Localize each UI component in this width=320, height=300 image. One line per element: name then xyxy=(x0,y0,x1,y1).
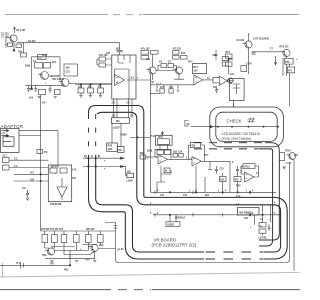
svg-text:C10: C10 xyxy=(66,72,71,74)
transistor TR4 xyxy=(175,67,182,74)
crossing dots xyxy=(88,157,90,159)
svg-text:3: 3 xyxy=(147,158,149,160)
ic internal wires xyxy=(115,55,131,99)
svg-text:C1 223: C1 223 xyxy=(1,34,9,36)
svg-text:4Ω2: 4Ω2 xyxy=(64,268,69,271)
wire collector rail xyxy=(17,42,120,44)
small vertical stubs xyxy=(86,155,99,158)
svg-text:△1-64: △1-64 xyxy=(116,248,124,251)
svg-text:+: + xyxy=(80,249,82,251)
svg-text:LEVEL: LEVEL xyxy=(259,235,268,239)
svg-text:5: 5 xyxy=(232,162,234,164)
transistor TR6 xyxy=(283,49,290,56)
row boxes below xyxy=(157,150,163,155)
svg-text:C4: C4 xyxy=(33,60,37,63)
cap C4 xyxy=(34,85,37,92)
svg-text:×: × xyxy=(104,160,106,163)
svg-text:C3 472: C3 472 xyxy=(28,40,36,43)
svg-text:RT7: RT7 xyxy=(229,60,234,62)
tr4 stack r1 xyxy=(173,51,180,55)
svg-text:104: 104 xyxy=(230,73,235,76)
svg-text:220k: 220k xyxy=(147,151,153,153)
bus pin ticks xyxy=(155,191,250,217)
box RT1k5 xyxy=(64,64,77,76)
svg-text:223: 223 xyxy=(181,53,186,55)
svg-text:222: 222 xyxy=(205,195,210,197)
jack wire lower xyxy=(19,135,41,137)
svg-text:C8: C8 xyxy=(187,124,191,126)
svg-text:4: 4 xyxy=(157,189,159,192)
connector box MA xyxy=(112,118,130,124)
svg-text:150: 150 xyxy=(72,178,77,180)
wires xyxy=(161,166,171,174)
svg-text:222: 222 xyxy=(294,155,299,157)
osc fb box xyxy=(243,164,255,169)
bus wire lower xyxy=(153,214,281,216)
meter box xyxy=(229,79,244,101)
wire mid xyxy=(156,66,177,71)
svg-text:C1+: C1+ xyxy=(22,188,27,190)
resistor row boxes xyxy=(42,235,48,243)
cable left leg inner dashed xyxy=(95,114,97,157)
led row wire xyxy=(191,126,278,128)
svg-text:TR8: TR8 xyxy=(42,255,47,257)
pin wires down xyxy=(114,99,133,118)
resistor R5 xyxy=(44,63,51,68)
svg-text:473 225 151 272 100: 473 225 151 272 100 xyxy=(41,228,64,231)
svg-text:1k5: 1k5 xyxy=(66,68,71,70)
wires east xyxy=(9,160,48,181)
wires from MA down xyxy=(112,123,121,146)
jack wire upper xyxy=(19,131,58,165)
low box xyxy=(127,173,134,178)
hang resistor Rc xyxy=(98,88,104,93)
trimmer inner box xyxy=(157,139,169,145)
box outline xyxy=(48,165,71,202)
dot xyxy=(137,137,138,138)
hang resistor Ra xyxy=(78,88,84,93)
transistor TR1 xyxy=(10,35,17,42)
svg-text:Δ1157: Δ1157 xyxy=(113,127,120,129)
box 400freq xyxy=(238,208,260,216)
comparator U3 xyxy=(219,76,227,85)
stack R 47k xyxy=(141,51,149,55)
led cable lower dashed xyxy=(194,148,258,150)
svg-text:C11: C11 xyxy=(3,156,8,158)
level box1 xyxy=(259,223,266,228)
svg-text:UREG: UREG xyxy=(168,225,175,227)
svg-text:RT12: RT12 xyxy=(244,167,250,169)
hang wires xyxy=(81,85,101,96)
box 150 xyxy=(117,147,124,153)
svg-text:RT4: RT4 xyxy=(188,61,193,64)
svg-text:472 223: 472 223 xyxy=(173,48,182,51)
svg-text:223: 223 xyxy=(146,59,151,61)
arrow down xyxy=(30,87,32,90)
wire TR1 emitter down xyxy=(13,42,15,52)
u5 out xyxy=(202,160,231,162)
left margin tick xyxy=(2,263,4,277)
svg-text:1: 1 xyxy=(150,213,152,215)
drops to bus xyxy=(223,173,238,192)
boxes RT7 xyxy=(222,57,228,61)
cap top right xyxy=(215,50,218,60)
svg-text:102: 102 xyxy=(106,53,111,55)
resistor RT9 xyxy=(284,58,293,64)
row wires xyxy=(160,145,167,150)
svg-text:RT3: RT3 xyxy=(158,137,163,139)
cap c+ xyxy=(252,53,256,54)
op-amp U2 xyxy=(194,75,203,85)
adaptor jack inner box xyxy=(3,137,14,147)
meter inner xyxy=(233,84,241,94)
jack pin lines xyxy=(2,131,12,142)
svg-text:TR2 C2240: TR2 C2240 xyxy=(52,78,65,81)
level ticks xyxy=(259,226,263,235)
trimmer arrow xyxy=(161,131,164,135)
led row pin dots xyxy=(217,126,279,128)
meter circle xyxy=(228,78,233,83)
svg-text:47k: 47k xyxy=(191,145,196,148)
W wire: down, east, up xyxy=(105,162,290,263)
op-amp U4 xyxy=(158,155,168,165)
svg-text:4737: 4737 xyxy=(42,54,48,57)
cap C3 xyxy=(27,85,30,92)
transistor Q2 xyxy=(91,244,98,251)
svg-text:C+: C+ xyxy=(256,173,260,175)
transistor TR7 xyxy=(289,153,296,160)
svg-text:RT7: RT7 xyxy=(204,155,209,157)
svg-text:47k 103: 47k 103 xyxy=(141,48,150,51)
wire to low xyxy=(124,167,127,176)
svg-text:LED BOARD J32755410: LED BOARD J32755410 xyxy=(222,132,261,136)
svg-text:RT10: RT10 xyxy=(285,151,291,153)
branch up xyxy=(69,255,71,265)
drop from u4 xyxy=(157,166,205,193)
resistor R3 xyxy=(21,53,27,57)
drops xyxy=(157,85,178,89)
svg-text:470: 470 xyxy=(44,151,49,154)
left wire xyxy=(0,264,70,266)
svg-text:TL7: TL7 xyxy=(16,263,21,265)
cap 103 top xyxy=(117,43,123,55)
stack R 103 xyxy=(141,56,149,60)
tr7 box xyxy=(280,153,285,161)
tick xyxy=(286,162,292,164)
top rail xyxy=(41,230,116,232)
led board box inner xyxy=(216,112,277,141)
bottom dark rule dashes xyxy=(118,289,151,291)
cap c15 xyxy=(215,166,218,174)
resistor R7 xyxy=(55,89,60,94)
cap c16 xyxy=(236,166,239,174)
cap left xyxy=(26,190,29,200)
cap stack c11 xyxy=(3,158,10,163)
cap stack c12 xyxy=(3,165,10,170)
transistor TR2a xyxy=(41,72,49,80)
svg-text:104: 104 xyxy=(29,97,34,100)
svg-text:1: 1 xyxy=(241,171,243,173)
u2 wires xyxy=(192,80,214,85)
resistor R6 xyxy=(39,89,46,94)
op-amp U5 xyxy=(192,157,202,167)
box C104 xyxy=(241,66,247,72)
junction dots on vertical xyxy=(40,174,41,175)
wire TR2b out xyxy=(69,83,112,85)
svg-text:104: 104 xyxy=(194,70,199,73)
svg-text:4C8: 4C8 xyxy=(108,148,113,151)
svg-text:2 5: 2 5 xyxy=(127,103,131,105)
transistor TR5 xyxy=(245,41,252,48)
svg-text:+: + xyxy=(296,59,298,61)
svg-text:TR9: TR9 xyxy=(85,260,90,262)
svg-text:2SC: 2SC xyxy=(99,245,104,247)
svg-text:CHECK: CHECK xyxy=(227,119,242,124)
u5 drop xyxy=(208,161,212,169)
resistor R1 xyxy=(8,43,13,46)
u6 fb wires xyxy=(241,166,259,177)
top wire xyxy=(32,57,61,87)
svg-text:RTA: RTA xyxy=(236,196,241,199)
svg-text:472: 472 xyxy=(52,61,57,64)
inner box r1 xyxy=(50,168,57,173)
triangle down xyxy=(57,187,67,197)
svg-text:RT8 472: RT8 472 xyxy=(280,46,290,49)
bottom dark rule right xyxy=(152,289,300,291)
svg-text:1: 1 xyxy=(91,156,93,158)
clip C8 xyxy=(185,121,189,127)
transistor TR3 xyxy=(149,67,156,74)
level column wires xyxy=(255,205,271,225)
check led symbol xyxy=(248,118,255,123)
cable bottom lower dashed xyxy=(206,258,264,260)
svg-text:RT9: RT9 xyxy=(285,62,290,64)
svg-text:C7: C7 xyxy=(270,49,274,51)
u4 out xyxy=(168,158,193,160)
small arrow xyxy=(283,166,285,169)
svg-text:C9: C9 xyxy=(213,87,217,89)
resistor R8 xyxy=(99,57,106,61)
supply arrow xyxy=(14,27,16,33)
svg-text:C:RT 2SC2240: C:RT 2SC2240 xyxy=(253,38,270,41)
svg-text:5 B: 5 B xyxy=(151,136,155,138)
top rail line left xyxy=(5,14,108,16)
top rail line right xyxy=(143,14,299,16)
led cable outer corner drop xyxy=(259,143,279,240)
svg-text:4: 4 xyxy=(274,201,276,204)
led cable upper dashed xyxy=(194,142,264,144)
svg-text:7: 7 xyxy=(137,78,139,80)
u4 fb wire xyxy=(155,149,171,159)
left column boxes xyxy=(226,54,233,58)
cable loop inner stroke xyxy=(96,112,281,252)
svg-text:C104: C104 xyxy=(246,63,252,66)
wire tr5-tr6 xyxy=(252,51,283,53)
top rail dashes xyxy=(113,14,142,16)
svg-text:+: + xyxy=(45,83,47,85)
svg-text:4: 4 xyxy=(225,189,227,192)
svg-text:RT6: RT6 xyxy=(226,52,231,54)
led box top pin tick xyxy=(233,104,235,108)
tr6 down xyxy=(283,57,290,107)
svg-text:M1B4 →: M1B4 → xyxy=(121,134,130,137)
tr3 gnd xyxy=(151,82,154,83)
u3 wires xyxy=(213,77,234,83)
box 165 xyxy=(164,168,170,173)
wire to check box xyxy=(233,100,235,107)
ureg wires xyxy=(170,215,176,222)
bottom rail xyxy=(45,258,95,260)
bottom dark rule left xyxy=(0,289,111,291)
svg-text:RT1 4k7: RT1 4k7 xyxy=(17,29,27,32)
svg-text:150: 150 xyxy=(118,150,123,152)
svg-text:+ + +: + + + xyxy=(156,83,162,85)
svg-text:×: × xyxy=(104,168,106,171)
svg-text:2 5: 2 5 xyxy=(112,103,116,105)
svg-text:MA: MA xyxy=(116,120,120,123)
grounds xyxy=(50,261,96,262)
svg-text:104 47k: 104 47k xyxy=(51,165,60,168)
wire u5 out down xyxy=(229,161,231,192)
cable loop outer stroke xyxy=(89,106,288,260)
led cable inner corner drop xyxy=(259,149,273,246)
stack R 472 xyxy=(151,51,159,55)
cable bottom upper dashed xyxy=(206,251,264,253)
svg-text:12: 12 xyxy=(207,78,210,80)
bottom rail xyxy=(25,84,64,86)
drop boxes xyxy=(220,177,227,182)
inner box r2 xyxy=(60,168,67,173)
u5 fb wire xyxy=(189,145,205,161)
bus junction dots xyxy=(169,192,171,194)
svg-text:RT9: RT9 xyxy=(236,186,241,188)
bottom light rule xyxy=(0,272,300,277)
junction dots xyxy=(80,84,81,85)
cross wires xyxy=(45,243,101,259)
wire y93 xyxy=(150,92,160,94)
svg-text:C17: C17 xyxy=(160,195,165,197)
wire branch down xyxy=(23,43,25,53)
tr4 stack r2 xyxy=(173,56,180,60)
led board box outer xyxy=(210,107,284,147)
resistor R4 xyxy=(35,63,43,68)
tr4 stack r3 xyxy=(181,56,188,60)
caps between xyxy=(161,64,167,68)
resistor R2 xyxy=(16,44,22,47)
drop gnds xyxy=(156,90,180,91)
ground G1 xyxy=(5,38,8,48)
tr4 down xyxy=(174,74,184,79)
junction xyxy=(69,265,71,267)
box RT5 xyxy=(193,64,207,74)
feedback box U4 xyxy=(156,157,158,159)
tri wires xyxy=(61,178,63,200)
svg-text:3: 3 xyxy=(99,156,101,158)
ground ticks xyxy=(38,97,57,98)
transistor TR2b xyxy=(61,79,69,87)
wire m184 xyxy=(130,137,151,139)
svg-text:CT 104: CT 104 xyxy=(1,36,9,39)
svg-text:4: 4 xyxy=(252,189,254,192)
level cap xyxy=(268,224,271,231)
tr3 vert xyxy=(152,54,154,80)
jack arrows xyxy=(7,130,9,137)
resistor 10k xyxy=(140,155,146,159)
IC box xyxy=(112,55,136,99)
bus wire xyxy=(150,84,192,86)
svg-text:220 4k7: 220 4k7 xyxy=(86,228,95,231)
testpoint TP2 box xyxy=(38,55,47,60)
svg-text:C6: C6 xyxy=(159,62,163,64)
box above U4 xyxy=(156,139,158,141)
svg-text:472: 472 xyxy=(30,171,35,174)
svg-text:D4 103: D4 103 xyxy=(237,39,245,42)
svg-text:C5: C5 xyxy=(168,62,172,64)
svg-text:4.7k: 4.7k xyxy=(72,169,77,172)
white-outs for dashed cable zones xyxy=(86,114,99,156)
cable left leg outer dashed xyxy=(88,114,90,157)
ureg box xyxy=(166,222,180,227)
box RT6 xyxy=(107,143,118,151)
hang grounds xyxy=(79,96,102,97)
svg-text:LOW: LOW xyxy=(126,179,133,183)
wire into box xyxy=(97,59,112,65)
op-amp U6 xyxy=(245,172,255,182)
col wire xyxy=(228,58,230,74)
left rail xyxy=(75,84,112,86)
svg-text:(PCB 2293011TRT 2/2): (PCB 2293011TRT 2/2) xyxy=(152,243,197,248)
svg-text:•: • xyxy=(268,219,269,221)
q2 out wire xyxy=(98,248,116,250)
junction dot xyxy=(13,49,15,51)
svg-text:220k: 220k xyxy=(25,66,31,68)
vert x150 xyxy=(150,73,152,192)
u3 cap below xyxy=(215,86,218,93)
svg-text:2 5: 2 5 xyxy=(112,116,116,118)
svg-text:C6—: C6— xyxy=(42,103,48,105)
row stubs xyxy=(45,231,101,235)
svg-text:2 5: 2 5 xyxy=(130,116,134,118)
svg-text:2SC1815: 2SC1815 xyxy=(50,76,60,78)
svg-text:C•: C• xyxy=(260,219,263,221)
svg-text:MIDDLE: MIDDLE xyxy=(175,216,186,220)
fb box U5 xyxy=(191,142,201,147)
svg-text:RT5: RT5 xyxy=(194,67,199,69)
trimmer box xyxy=(156,135,173,145)
svg-text:M: M xyxy=(230,83,232,85)
tr5 vert xyxy=(248,33,250,74)
wire pair xyxy=(83,158,121,166)
op-amp U1 xyxy=(115,75,125,86)
svg-text:(PCB 2297749000): (PCB 2297749000) xyxy=(222,137,252,141)
drop boxes xyxy=(160,89,164,93)
wires down xyxy=(293,159,295,271)
resistor R9 xyxy=(99,63,106,67)
transistor Q1 xyxy=(47,248,54,255)
resistor 473 xyxy=(287,67,294,73)
cap C5 xyxy=(49,85,52,92)
svg-text:+2.5: +2.5 xyxy=(130,78,135,80)
long vertical wire xyxy=(40,95,42,231)
svg-text:104: 104 xyxy=(183,194,188,197)
led row arrow xyxy=(210,125,214,129)
wire in U4 xyxy=(146,156,159,158)
tp tick xyxy=(21,262,24,269)
small box 470 xyxy=(37,150,43,154)
svg-text:RT6: RT6 xyxy=(108,146,113,148)
opamp out wire xyxy=(127,79,151,81)
c7 arrow xyxy=(274,56,276,65)
